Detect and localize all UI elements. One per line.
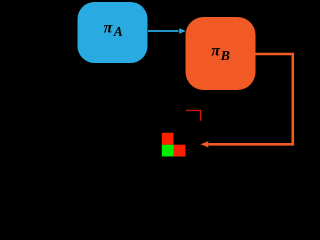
svg-text:B: B xyxy=(220,49,230,64)
grid cell red right xyxy=(174,145,186,157)
label pi_A xyxy=(104,20,123,39)
svg-text:A: A xyxy=(113,24,123,39)
grid cell green xyxy=(162,145,174,157)
arrow A to B xyxy=(148,28,186,34)
policy box pi_B xyxy=(186,17,256,90)
svg-text:π: π xyxy=(104,20,114,37)
orange feedback arrow B to grid xyxy=(200,54,292,147)
policy box pi_A xyxy=(78,2,148,63)
grid cell red top xyxy=(162,133,174,145)
label pi_B xyxy=(211,42,230,63)
red corner bracket (cell marker) xyxy=(186,110,201,120)
